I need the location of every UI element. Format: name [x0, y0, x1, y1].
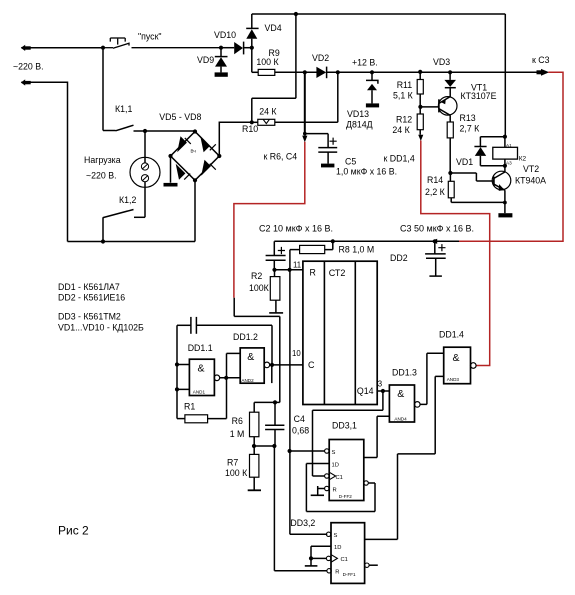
junction bridge left — [168, 154, 172, 158]
wire DD3,2 S input — [290, 533, 326, 535]
junction R10 left — [250, 120, 254, 124]
svg-text:R14: R14 — [427, 175, 443, 185]
diode VD4 — [251, 39, 253, 48]
wire bridge bottom to rail — [194, 180, 196, 241]
junction C-input feedback tap — [270, 363, 274, 367]
resistor R1 — [177, 418, 185, 420]
svg-text:К1,2: К1,2 — [119, 195, 136, 205]
junction btn — [101, 46, 105, 50]
oscillator capacitor — [177, 324, 191, 326]
svg-text:D-FF1: D-FF1 — [343, 572, 356, 577]
wire reset line (R8 left / pin11 / DD3 S) — [290, 250, 327, 535]
svg-text:к DD1,4: к DD1,4 — [384, 153, 415, 163]
svg-text:AND4: AND4 — [394, 416, 407, 421]
svg-text:100К: 100К — [249, 283, 270, 293]
svg-text:1 М: 1 М — [230, 429, 245, 439]
svg-text:к R6, C4: к R6, C4 — [264, 152, 298, 162]
ground DD3,1 R — [317, 486, 319, 495]
svg-text:VD2: VD2 — [312, 53, 329, 63]
wire DD1.4 lower input — [365, 376, 444, 539]
wire net C lower — [234, 298, 280, 403]
svg-text:DD1.1: DD1.1 — [188, 343, 213, 353]
svg-text:R11: R11 — [397, 80, 413, 90]
svg-text:DD3 - К561ТМ2: DD3 - К561ТМ2 — [58, 312, 121, 322]
wire DD1.2 out to C input — [270, 364, 303, 366]
svg-text:1,0 мкФ х 16 В.: 1,0 мкФ х 16 В. — [336, 167, 397, 177]
svg-text:11: 11 — [293, 261, 301, 270]
svg-text:С1: С1 — [336, 475, 343, 481]
relay contact K1,1 — [103, 130, 116, 132]
svg-text:С: С — [308, 360, 315, 370]
svg-text:&: & — [453, 352, 460, 364]
svg-text:AND1: AND1 — [193, 390, 206, 395]
resistor R6 — [253, 402, 255, 412]
svg-text:DD2: DD2 — [390, 253, 408, 263]
svg-text:+12 В.: +12 В. — [352, 58, 378, 68]
svg-text:DD1 - К561ЛА7: DD1 - К561ЛА7 — [58, 282, 120, 292]
svg-text:Д814Д: Д814Д — [346, 120, 373, 130]
wire gate riser x226 — [226, 353, 228, 418]
node mains N arrow — [21, 81, 30, 83]
svg-text:КТ3107Е: КТ3107Е — [461, 91, 497, 101]
pin DD3,2 R input — [327, 569, 331, 573]
counter DD2 K561IE16 — [303, 261, 377, 404]
wire osc left riser — [176, 325, 178, 418]
svg-text:К2: К2 — [519, 156, 527, 163]
wire mains N to load loop — [25, 82, 68, 241]
wire red net A (+12 to C3) — [459, 72, 563, 241]
pin DD3,1 Qbar — [364, 481, 368, 485]
svg-text:DD1.4: DD1.4 — [439, 329, 464, 339]
svg-text:СТ2: СТ2 — [329, 268, 346, 278]
junction DD1.1 output node — [224, 376, 228, 380]
diode VD1 — [480, 136, 505, 138]
relay contact K1,2 — [134, 216, 145, 218]
svg-text:R6: R6 — [232, 416, 243, 426]
svg-text:DD3,1: DD3,1 — [332, 421, 357, 431]
junction R6 bottom — [252, 444, 256, 448]
wire VT2 base link — [450, 173, 494, 181]
junction top rail tap — [294, 12, 298, 16]
gate DD1.1 — [177, 365, 189, 390]
junction VD13 top — [370, 70, 374, 74]
svg-text:R1: R1 — [184, 401, 195, 411]
wire lamp top lead — [144, 131, 146, 163]
bridge VD5-VD8 — [171, 132, 220, 181]
svg-text:R: R — [335, 570, 339, 576]
load lamp "Нагрузка" — [130, 157, 160, 187]
svg-text:VD4: VD4 — [265, 23, 282, 33]
diode VD10 — [221, 47, 234, 49]
svg-text:5,1 К: 5,1 К — [393, 91, 414, 101]
wire DD3,1 Q to DD1.3 — [364, 457, 377, 459]
ground bridge minus bar — [170, 156, 172, 183]
svg-text:С3 50 мкФ х 16 В.: С3 50 мкФ х 16 В. — [400, 224, 474, 234]
svg-text:Нагрузка: Нагрузка — [84, 155, 121, 165]
svg-text:&: & — [198, 363, 205, 375]
svg-text:к С3: к С3 — [532, 55, 550, 65]
svg-text:R10: R10 — [242, 124, 258, 134]
diode VD9 — [220, 48, 222, 57]
svg-text:0,68: 0,68 — [292, 426, 309, 436]
svg-text:S: S — [334, 533, 338, 539]
junction VD4 node — [250, 46, 254, 50]
junction C3 top — [433, 239, 437, 243]
svg-text:VT2: VT2 — [523, 164, 539, 174]
wire VT1 base — [420, 106, 438, 108]
wire timing rail — [274, 240, 459, 242]
svg-text:R7: R7 — [227, 458, 238, 468]
diode VD5 top-left arm — [177, 136, 187, 152]
junction lamp top — [143, 129, 147, 133]
wire DD3,1 1D input — [306, 463, 329, 465]
junction K1,2 bottom — [101, 239, 105, 243]
svg-text:3: 3 — [378, 380, 382, 389]
svg-text:R12: R12 — [396, 115, 412, 125]
svg-text:~220 В.: ~220 В. — [13, 62, 44, 72]
resistor R9 — [252, 71, 258, 73]
svg-text:10: 10 — [292, 349, 301, 358]
svg-text:AND3: AND3 — [447, 377, 460, 382]
svg-text:2,7 К: 2,7 К — [460, 124, 481, 134]
wire counter R input — [275, 269, 303, 271]
svg-text:Q14: Q14 — [357, 386, 374, 396]
svg-text:1D: 1D — [332, 463, 339, 469]
junction bridge right — [217, 154, 221, 158]
wire bottom mains rail — [68, 241, 196, 243]
junction DD1.1 input B — [175, 387, 179, 391]
relay coil K2 — [504, 137, 506, 148]
capacitor C4 — [274, 402, 276, 425]
junction Q14 node — [381, 389, 385, 393]
node к C3 arrow — [541, 69, 549, 76]
pin DD3,1 C1 input — [313, 475, 325, 477]
pin DD3,2 Qbar stub — [365, 563, 369, 567]
wire DD1.2 upper input — [227, 352, 241, 354]
svg-text:1D: 1D — [334, 545, 341, 551]
wire C4 node to DD3,2 R — [274, 446, 326, 571]
svg-text:24 К: 24 К — [259, 107, 277, 117]
svg-text:VD1...VD10 - КД102Б: VD1...VD10 - КД102Б — [58, 323, 144, 333]
resistor R12 — [417, 114, 423, 130]
svg-text:А1: А1 — [506, 143, 512, 148]
junction reset riser top — [288, 268, 292, 272]
wire Z-link rail to R10 — [252, 14, 296, 122]
svg-text:2,2 К: 2,2 К — [425, 187, 446, 197]
wire top supply rail — [252, 13, 505, 15]
flipflop DD3,1 K561TM2 — [329, 440, 364, 501]
resistor R10 (trimmer) — [252, 121, 258, 123]
svg-text:R2: R2 — [251, 271, 262, 281]
svg-text:VD13: VD13 — [347, 109, 369, 119]
gate DD1.4 — [444, 347, 471, 384]
resistor R14 — [449, 173, 451, 181]
svg-text:&: & — [397, 388, 404, 400]
svg-text:VD9: VD9 — [197, 55, 214, 65]
svg-text:R: R — [333, 487, 337, 493]
resistor R11 — [419, 72, 421, 79]
wire R9 left riser — [251, 48, 253, 73]
wire R6-C4 link — [254, 445, 274, 447]
wire Q14 output pin3 — [377, 390, 389, 392]
svg-text:"пуск": "пуск" — [138, 32, 162, 42]
capacitor C3 — [434, 241, 436, 253]
junction VT1 base node — [418, 105, 422, 109]
resistor R13 — [449, 115, 451, 122]
pin DD3,2 C1 input — [311, 557, 326, 559]
svg-text:VD1: VD1 — [456, 157, 473, 167]
capacitor C5 — [318, 147, 337, 149]
junction relay top — [503, 135, 507, 139]
wire net-C drop from +12 node — [304, 72, 306, 135]
svg-text:S: S — [332, 450, 336, 456]
svg-text:R8 1,0 М: R8 1,0 М — [339, 245, 375, 255]
junction C4 top — [273, 400, 277, 404]
svg-text:А3: А3 — [506, 161, 512, 166]
diode VD8 bottom-right arm — [201, 160, 211, 176]
junction DD1.1 input A — [175, 362, 179, 366]
svg-text:DD2 - К561ИЕ16: DD2 - К561ИЕ16 — [58, 292, 125, 302]
node mains L arrow — [21, 47, 30, 49]
transistor VT2 KT940A (NPN) — [492, 171, 511, 190]
junction VD3 top — [448, 70, 452, 74]
svg-text:24 К: 24 К — [392, 125, 410, 135]
svg-text:Рис 2: Рис 2 — [58, 524, 89, 538]
junction R11 top — [418, 70, 422, 74]
pin DD3,1 R input — [318, 488, 325, 490]
wire R6 top link — [254, 401, 275, 403]
wire DD1.3 out to DD1.4 — [420, 353, 444, 404]
node к DD1,4 arrow — [418, 135, 423, 141]
junction R14 top — [448, 171, 452, 175]
junction DD3,2 C1 node — [309, 556, 313, 560]
ground R7 — [248, 489, 261, 491]
wire mains top to button — [25, 47, 103, 49]
junction VD2 anode — [303, 70, 307, 74]
resistor R8 — [290, 249, 300, 251]
junction C2 bottom — [272, 268, 276, 272]
wire relay feed from top rail — [504, 14, 506, 137]
wire DD3,1 S input — [290, 450, 325, 452]
gate DD1.3 — [389, 385, 414, 422]
svg-text:VD3: VD3 — [433, 57, 450, 67]
junction C4 bottom — [272, 444, 276, 448]
svg-text:DD1.2: DD1.2 — [233, 332, 258, 342]
resistor R2 — [274, 270, 276, 277]
node C3 feed arrow — [431, 239, 438, 244]
wire red net B (R12 to DD1.4 out) — [421, 141, 490, 366]
diode VD2 — [316, 67, 326, 78]
diode VD3 — [449, 72, 451, 80]
diode VD6 top-right arm — [200, 136, 210, 152]
svg-text:Вч: Вч — [191, 149, 197, 154]
pushbutton SB "пуск" — [103, 38, 221, 48]
gate DD1.2 — [240, 348, 264, 383]
svg-text:DD1.3: DD1.3 — [392, 367, 417, 377]
wire bridge plus up to R10 — [219, 122, 252, 156]
junction VD2 cathode — [336, 70, 340, 74]
junction VT2 collector node — [503, 164, 507, 168]
zener VD13 Д814Д — [371, 72, 373, 80]
junction VD9 node — [219, 46, 223, 50]
svg-text:100 К: 100 К — [256, 57, 279, 67]
svg-text:DD3,2: DD3,2 — [290, 518, 315, 528]
junction bridge bottom — [193, 178, 197, 182]
wire DD1.2 out stub — [271, 365, 273, 383]
svg-text:~220 В.: ~220 В. — [86, 170, 117, 180]
svg-text:100 К: 100 К — [225, 468, 248, 478]
wire DD3,1 Qbar to 1D loop — [306, 464, 375, 512]
junction DD3,1 S tap — [288, 449, 292, 453]
svg-text:С5: С5 — [345, 157, 356, 167]
transistor VT1 KT3107E (PNP) — [438, 97, 457, 116]
flipflop DD3,2 K561TM2 — [331, 523, 365, 584]
svg-text:D-FF2: D-FF2 — [339, 494, 352, 499]
svg-text:R: R — [310, 268, 316, 278]
junction R8 tap — [331, 239, 335, 243]
wire DD1.2 fb riser — [271, 325, 273, 365]
svg-text:С1: С1 — [341, 557, 348, 563]
wire C5 branch — [305, 134, 328, 148]
svg-text:VD10: VD10 — [214, 30, 236, 40]
wire red net C (C5 node to R6,C4) — [234, 142, 305, 298]
svg-text:К1,1: К1,1 — [115, 104, 132, 114]
ground VT2 emitter — [498, 213, 512, 217]
wire R10 right to VD2 node — [275, 72, 338, 122]
capacitor C2 — [273, 241, 275, 255]
wire lamp bottom lead — [144, 182, 146, 217]
svg-text:С4: С4 — [294, 414, 305, 424]
wire +12V rail — [305, 71, 540, 73]
wire DD3,2 1D input — [311, 546, 331, 558]
svg-text:&: & — [247, 351, 254, 363]
diode VD7 bottom-left arm — [176, 164, 186, 180]
svg-text:С2 10 мкФ х 16 В.: С2 10 мкФ х 16 В. — [259, 223, 333, 233]
wire DD1.3 lower input — [377, 416, 389, 457]
svg-text:КТ940А: КТ940А — [515, 176, 546, 186]
svg-text:R13: R13 — [460, 113, 476, 123]
wire K1.1 drop — [102, 48, 104, 131]
ground DD3,2 C1 — [310, 558, 312, 566]
resistor R7 — [253, 446, 255, 454]
red link nets — [234, 72, 563, 365]
svg-text:VD5 - VD8: VD5 - VD8 — [159, 112, 201, 122]
svg-text:AND2: AND2 — [241, 378, 254, 383]
junction bridge top — [193, 129, 197, 133]
node к R6,C4 arrow — [302, 136, 307, 143]
wire Q14 return to DD3,1 clock — [313, 391, 383, 476]
